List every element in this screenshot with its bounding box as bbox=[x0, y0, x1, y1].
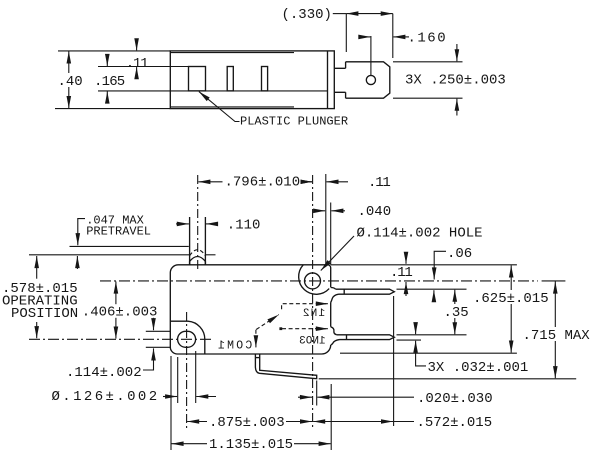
dim 3X .032 arrows bbox=[415, 327, 417, 334]
lower hole vertical centerline bbox=[186, 312, 188, 430]
svg-text:Ø.114±.002 HOLE: Ø.114±.002 HOLE bbox=[357, 226, 483, 242]
dashed leader to COM terminal bbox=[255, 330, 257, 338]
svg-text:(.330): (.330) bbox=[282, 7, 332, 23]
upper hole boss arc bbox=[299, 265, 330, 294]
vent slot 1 bbox=[227, 67, 233, 91]
switch body (side view) outline with terminal notches bbox=[170, 265, 330, 354]
svg-text:PLASTIC PLUNGER: PLASTIC PLUNGER bbox=[240, 115, 348, 129]
terminal 1 (NC) bump top bbox=[331, 288, 336, 290]
lever bottom ext line bbox=[319, 378, 577, 380]
N3 leader start dot bbox=[279, 327, 282, 330]
lower boss outline bbox=[170, 321, 205, 354]
svg-text:.114±.002: .114±.002 bbox=[66, 365, 142, 381]
dim .040 arrows bbox=[317, 210, 325, 212]
leader: hole diameter bbox=[321, 236, 354, 271]
svg-text:1N2: 1N2 bbox=[302, 308, 325, 320]
dim .160 arrows bbox=[359, 36, 370, 38]
dashed N2 leader with arrow bbox=[282, 304, 327, 310]
ext line x=325.8 bbox=[325, 174, 327, 265]
svg-text:1.135±.015: 1.135±.015 bbox=[209, 437, 293, 453]
body bottom ext line bbox=[340, 352, 517, 354]
svg-text:.796±.010: .796±.010 bbox=[225, 174, 301, 190]
dashed N3 leader with arrow bbox=[282, 328, 327, 330]
svg-text:.11: .11 bbox=[368, 175, 390, 191]
svg-text:.040: .040 bbox=[358, 204, 392, 220]
svg-text:COM1: COM1 bbox=[216, 339, 252, 352]
label .406±.003 bbox=[80, 304, 156, 318]
label .625±.015 bbox=[471, 290, 550, 304]
lever stub shoulder tick bbox=[255, 357, 259, 359]
centerline solid segment (.715 anchor) bbox=[542, 280, 566, 282]
label .11 (mid right) bbox=[389, 266, 409, 277]
terminal 2 top ext line bbox=[397, 334, 467, 336]
dim .625 line bbox=[510, 265, 512, 352]
body bottom lip line bbox=[170, 106, 294, 108]
svg-text:.625±.015: .625±.015 bbox=[473, 291, 549, 307]
operating position line bbox=[29, 254, 189, 256]
label .875±.003 bbox=[207, 414, 286, 428]
lower hole horizontal centerline bbox=[29, 338, 213, 340]
switch body (top view) outline bbox=[170, 51, 334, 109]
svg-text:.165: .165 bbox=[94, 74, 125, 90]
dim (.330) line bbox=[333, 13, 347, 15]
terminal 2 bottom ext line bbox=[397, 339, 422, 341]
svg-text:Ø.126±.002: Ø.126±.002 bbox=[52, 389, 160, 405]
svg-text:3X .032±.001: 3X .032±.001 bbox=[428, 360, 529, 376]
terminal tip ext line bbox=[393, 296, 395, 426]
terminal 2 blade bbox=[337, 335, 395, 340]
svg-text:.406±.003: .406±.003 bbox=[82, 305, 158, 321]
body top edge right extension bbox=[331, 264, 517, 266]
dim .40 line bbox=[68, 51, 70, 108]
svg-text:.11: .11 bbox=[390, 265, 412, 281]
dim dia .126 arrows bbox=[163, 396, 177, 398]
svg-text:.06: .06 bbox=[447, 246, 472, 262]
terminal hole (top view) bbox=[366, 75, 375, 84]
plastic plunger slot bbox=[189, 67, 206, 91]
terminal 1 shoulder tick bbox=[343, 289, 345, 294]
body left edge ext bbox=[170, 356, 172, 450]
dim .047 pretravel leader+arrows bbox=[78, 219, 85, 246]
upper hole horizontal centerline bbox=[100, 280, 538, 282]
terminal 2 shoulder tick bbox=[346, 335, 348, 340]
svg-text:.110: .110 bbox=[227, 217, 261, 233]
terminal neck (top view) bbox=[334, 62, 345, 98]
terminal 1 top ext line bbox=[397, 288, 467, 290]
label 1.135±.015 bbox=[207, 436, 294, 450]
dim .110 arrows bbox=[176, 223, 189, 225]
svg-text:.40: .40 bbox=[58, 74, 83, 90]
dim .796 line bbox=[198, 181, 312, 183]
terminal blade (top view) bbox=[346, 62, 390, 98]
svg-text:POSITION: POSITION bbox=[11, 306, 78, 322]
svg-text:PRETRAVEL: PRETRAVEL bbox=[86, 224, 151, 238]
dim .572 line+leader bbox=[313, 421, 393, 423]
terminal 1 bump bottom S-curve bbox=[331, 294, 339, 302]
vent slot 2 bbox=[262, 67, 268, 91]
body vertical centerline bbox=[312, 175, 314, 430]
dim 3X .250 extension lines bbox=[393, 61, 463, 63]
label .796±.010 bbox=[223, 174, 301, 188]
dim .40 extension bottom bbox=[55, 108, 170, 110]
svg-text:.875±.003: .875±.003 bbox=[209, 415, 285, 431]
svg-text:3X .250±.003: 3X .250±.003 bbox=[405, 72, 506, 88]
dim .165 arrows bbox=[106, 57, 108, 67]
label .715 MAX bbox=[521, 327, 590, 341]
dim .020 arrows bbox=[298, 396, 312, 398]
dim .11 arrows (top view) bbox=[136, 40, 138, 50]
dim .114 arrows+leader bbox=[153, 317, 155, 330]
lever tip ext line bbox=[316, 381, 318, 406]
slot edge ext lines bbox=[177, 357, 179, 403]
dim .35 line bbox=[454, 290, 456, 335]
body end cap line bbox=[327, 51, 329, 109]
label .40 bbox=[56, 73, 85, 87]
dim .715 line bbox=[554, 282, 556, 379]
svg-text:.35: .35 bbox=[444, 305, 469, 321]
dim .11 arrows (upper right) bbox=[303, 181, 312, 183]
ext line body right edge up bbox=[330, 203, 332, 265]
svg-text:.715 MAX: .715 MAX bbox=[523, 328, 590, 344]
dim .114 ext lines bbox=[146, 330, 170, 332]
plunger dome (operating position, solid) bbox=[190, 257, 206, 265]
dim (.330) extension lines bbox=[345, 14, 347, 52]
svg-text:.020±.030: .020±.030 bbox=[417, 391, 493, 407]
COM lever stub and arm bbox=[255, 354, 316, 379]
leader: PLASTIC PLUNGER bbox=[199, 92, 240, 122]
dim .06 leader+arrow bbox=[434, 251, 446, 279]
terminal 2 (NO) bump top bbox=[331, 327, 337, 335]
dashed diagonal link bbox=[256, 315, 279, 330]
upper mounting hole bbox=[305, 273, 321, 289]
dim .875 line bbox=[187, 421, 312, 423]
dim .406 line bbox=[115, 282, 117, 339]
body top lip line bbox=[170, 52, 294, 54]
terminal 2 bump bottom S-curve bbox=[331, 340, 340, 345]
terminal hole centerline ext (top view) bbox=[370, 36, 372, 75]
label .35 bbox=[442, 304, 470, 318]
plunger dome (free position, dashed) bbox=[190, 250, 206, 256]
plunger upper line + extension bbox=[98, 66, 189, 68]
plunger sides bbox=[189, 217, 191, 265]
svg-text:.11: .11 bbox=[126, 56, 148, 72]
terminal 1 blade bbox=[336, 289, 395, 294]
svg-text:.160: .160 bbox=[408, 30, 448, 46]
dim .40 extension top bbox=[58, 50, 170, 52]
dim .578 arrows bbox=[36, 256, 38, 279]
lower mounting slot bbox=[178, 331, 196, 347]
plunger ridge line bbox=[98, 90, 328, 92]
svg-text:.572±.015: .572±.015 bbox=[417, 415, 493, 431]
COM down arrow bbox=[255, 340, 257, 347]
dim 1.135 line bbox=[172, 443, 331, 445]
free position line bbox=[70, 245, 189, 247]
body right edge ext bbox=[330, 384, 332, 450]
dim 3X .250 arrows bbox=[456, 44, 458, 61]
plunger centerline bbox=[197, 175, 199, 269]
dim .11 arrows (mid right) bbox=[405, 254, 407, 264]
svg-text:1NO3: 1NO3 bbox=[299, 335, 325, 347]
